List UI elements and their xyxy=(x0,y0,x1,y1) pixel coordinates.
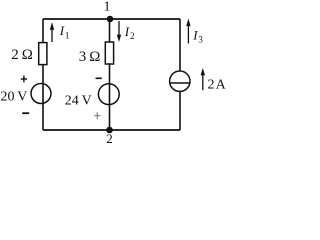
current arrow of 2A source xyxy=(201,68,205,90)
polarity minus of V1 xyxy=(22,112,29,114)
svg-text:2: 2 xyxy=(106,131,113,146)
resistor 2 ohm (box) xyxy=(39,43,47,65)
polarity minus of V2 xyxy=(96,77,102,79)
current source 2A (circle with bar) xyxy=(170,71,190,91)
svg-text:24 V: 24 V xyxy=(65,94,92,109)
svg-text:I: I xyxy=(124,24,130,39)
voltage source V2 24V (circle) xyxy=(98,84,119,105)
svg-text:I: I xyxy=(59,23,65,38)
svg-text:2 A: 2 A xyxy=(208,77,227,92)
voltage source V1 20V (circle) xyxy=(31,84,51,104)
wire: bottom bus xyxy=(43,129,180,131)
svg-text:1: 1 xyxy=(65,30,70,40)
svg-text:2 Ω: 2 Ω xyxy=(11,47,33,63)
resistor 3 ohm (box) xyxy=(105,42,113,64)
svg-text:3 Ω: 3 Ω xyxy=(79,49,101,65)
polarity plus of V2 xyxy=(94,112,100,119)
svg-text:20 V: 20 V xyxy=(1,89,28,104)
current arrow I2 xyxy=(117,21,121,42)
wire: right branch vertical xyxy=(179,19,181,130)
svg-text:3: 3 xyxy=(198,35,203,45)
wire: left branch vertical xyxy=(42,19,44,130)
node 1 junction dot xyxy=(107,16,114,23)
svg-text:2: 2 xyxy=(130,31,135,41)
polarity plus of V1 xyxy=(21,76,27,83)
svg-text:1: 1 xyxy=(104,0,111,15)
current arrow I3 xyxy=(186,19,190,44)
current arrow I1 xyxy=(50,22,54,42)
svg-text:I: I xyxy=(192,27,198,42)
wire: middle branch vertical xyxy=(109,19,111,130)
node 2 junction dot xyxy=(106,127,113,134)
wire: top bus from node A to node B xyxy=(43,18,180,20)
